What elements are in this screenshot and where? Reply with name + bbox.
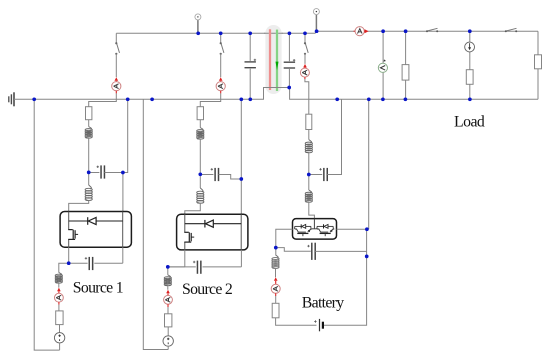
wire: [275, 296, 277, 303]
wire top bus left: [116, 32, 315, 34]
wire bat left chain: [275, 248, 277, 255]
wire: [240, 250, 242, 267]
node dc cap1 top: [248, 31, 252, 35]
battery B1: [319, 319, 321, 331]
wire bat right column: [368, 99, 370, 229]
wire voltmeter branch: [382, 31, 384, 99]
ammeter A7: [354, 30, 356, 32]
svg-text:Source 1: Source 1: [73, 279, 123, 296]
node bat mid: [307, 173, 311, 177]
capacitor C2b: [168, 266, 196, 268]
wire U2 top link: [185, 223, 205, 225]
wire: [122, 247, 124, 263]
inductor L4: [196, 130, 204, 140]
switch SW5: [506, 28, 516, 31]
node S1 cap left: [87, 171, 91, 175]
wire cap link: [89, 172, 100, 174]
wire S1 switch branch: [115, 33, 117, 43]
ammeter A3: [219, 77, 223, 81]
wire L5 to block: [185, 203, 201, 214]
wire U1 left leg: [68, 212, 70, 230]
wire A5 jog: [305, 79, 309, 114]
node load v top: [381, 29, 385, 33]
wire red rail: [269, 29, 271, 90]
current source I1: [465, 42, 475, 52]
inductor L1: [85, 129, 93, 139]
node S2 low: [166, 265, 170, 269]
node S2 out bus: [239, 97, 243, 101]
inductor L6: [164, 277, 172, 286]
wire U1 right leg: [122, 212, 124, 248]
wire bat cap link: [309, 174, 322, 176]
wire: [58, 283, 60, 288]
node bat cap top: [335, 97, 339, 101]
transistor Q2 (IGBT): [184, 231, 189, 233]
converter block U2: [177, 214, 248, 250]
node dc jog right: [287, 86, 291, 90]
node A ground-S1: [32, 97, 36, 101]
node load r1 bottom: [404, 97, 408, 101]
svg-text:Battery: Battery: [302, 295, 344, 312]
wire: [167, 285, 169, 289]
voltmeter VM1: [378, 63, 387, 72]
wire dc jog over rails: [264, 87, 290, 89]
wire U3 midpoint: [313, 219, 315, 229]
node bat switch top: [303, 31, 307, 35]
diode D2: [204, 220, 206, 228]
ammeter A1: [115, 77, 119, 81]
node port2: [315, 29, 319, 33]
wire: [220, 54, 222, 77]
wire: [184, 250, 186, 267]
wire A3 to R3 jog: [200, 93, 220, 106]
wire U3 right out: [337, 228, 367, 230]
wire: [327, 99, 341, 174]
svg-text:Source 2: Source 2: [182, 281, 233, 298]
inductor L2: [85, 188, 93, 200]
wire: [324, 229, 367, 325]
wire: [219, 175, 242, 180]
node dc cap2 top: [288, 31, 292, 35]
wire bat cap2 link: [276, 248, 312, 252]
wire: [88, 120, 90, 127]
wire S2 return: [143, 99, 168, 349]
resistor R3: [197, 107, 203, 120]
wire: [115, 54, 117, 77]
svg-text:Load: Load: [454, 114, 485, 131]
resistor R2: [56, 311, 63, 325]
wire U2 right leg: [240, 214, 242, 250]
capacitor C6: [311, 243, 316, 260]
source V1: [54, 333, 64, 343]
wire: [199, 175, 201, 189]
node bat right top: [365, 227, 369, 231]
wire green rail: [276, 30, 278, 91]
wire: [308, 130, 310, 140]
capacitor C4: [283, 61, 296, 69]
diode D4 / transistor Q4: [316, 226, 318, 229]
wire top bus right: [315, 30, 538, 32]
resistor R1: [86, 107, 92, 120]
wire U1 top link: [69, 220, 88, 222]
capacitor C1a: [100, 165, 105, 178]
ground: [8, 96, 10, 102]
wire: [122, 173, 124, 212]
wire: [58, 305, 60, 311]
node bat bus: [367, 97, 371, 101]
wire S2 switch branch: [220, 33, 222, 43]
node load r1 top: [404, 29, 408, 33]
resistor R6: [272, 303, 279, 318]
node S2 out: [239, 177, 243, 181]
capacitor C2a: [214, 168, 219, 181]
resistor R_load3: [535, 55, 542, 69]
node isrc top: [468, 29, 472, 33]
wire dc cap2: [288, 33, 290, 87]
switch SW1: [117, 44, 120, 53]
wire: [59, 325, 61, 333]
wire: [276, 318, 317, 325]
wire: [88, 138, 90, 173]
inductor L5: [196, 191, 204, 203]
wire: [167, 307, 169, 314]
wire L8 to block: [309, 202, 315, 219]
wire U3 left out: [276, 229, 293, 247]
wire right column: [537, 31, 539, 99]
node S1 out bus: [126, 97, 130, 101]
wire load r1: [405, 31, 407, 99]
port P2: [315, 15, 317, 32]
wire U2 left leg: [184, 214, 186, 232]
wire cap link: [200, 174, 213, 176]
node port1: [196, 31, 200, 35]
node load v bottom: [381, 97, 385, 101]
resistor R4: [165, 314, 172, 327]
inductor L3: [55, 274, 63, 283]
wire dc cap1: [249, 33, 251, 99]
node bat right mid: [365, 255, 369, 259]
resistor R5: [306, 114, 312, 129]
node bat left: [274, 246, 278, 250]
node isrc bottom: [468, 97, 472, 101]
resistor R_load2: [466, 70, 473, 85]
diode D3 / transistor Q3: [294, 226, 296, 229]
wire S2 out column: [240, 99, 242, 214]
switch SW4: [428, 28, 438, 31]
wire: [275, 268, 277, 277]
wire S2 low chain: [167, 267, 169, 275]
node stray: [150, 97, 154, 101]
wire: [167, 346, 169, 350]
ammeter A2: [57, 288, 61, 292]
switch SW2: [221, 44, 224, 53]
ammeter A6: [274, 277, 278, 281]
wire isource branch: [469, 31, 471, 99]
inductor L8: [305, 192, 313, 202]
source V2: [163, 336, 173, 346]
wire L2 to block: [69, 201, 89, 212]
node S1 out: [121, 171, 125, 175]
ammeter A5: [303, 64, 307, 68]
wire: [304, 54, 306, 64]
converter block U3: [293, 219, 337, 240]
wire: [308, 175, 310, 191]
switch SW3: [305, 44, 308, 53]
capacitor C1b: [69, 262, 88, 264]
converter block U1: [60, 212, 131, 248]
wire: [59, 343, 61, 350]
wire: [199, 120, 201, 128]
wire: [315, 250, 366, 252]
wire: [68, 247, 70, 263]
node S1 low: [67, 261, 71, 265]
node dc cap1 bottom: [248, 97, 252, 101]
wire: [199, 139, 201, 175]
inductor L7: [305, 142, 313, 153]
wire bat switch branch: [304, 33, 306, 43]
node S2 cap left: [198, 172, 202, 176]
wire: [308, 153, 310, 175]
inductor L9: [271, 258, 279, 269]
resistor R_load1: [402, 65, 409, 81]
wire bus over halo: [264, 32, 283, 34]
wire S1 return: [34, 99, 59, 350]
wire S1 out to bus: [123, 99, 128, 172]
capacitor C5: [323, 168, 328, 181]
ammeter A4: [166, 290, 170, 294]
wire: [167, 327, 169, 336]
highlight halo: [265, 25, 281, 94]
diode D1: [87, 217, 89, 225]
wire A1 to L1 jog: [89, 93, 117, 106]
green arrow: [276, 62, 279, 71]
wire: [88, 173, 90, 186]
wire S1 low chain: [59, 263, 69, 272]
wire top bus jog: [314, 31, 316, 33]
wire ground bus: [14, 88, 538, 100]
port P1: [197, 20, 199, 33]
capacitor C3: [244, 61, 257, 69]
node S2 switch top: [219, 31, 223, 35]
transistor Q1 (IGBT): [68, 229, 73, 231]
